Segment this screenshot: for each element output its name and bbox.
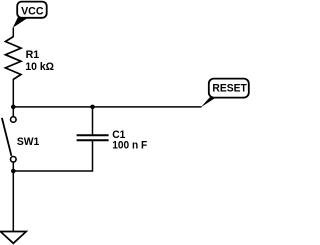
RESET net label <box>209 79 249 98</box>
svg-text:10 kΩ: 10 kΩ <box>25 61 54 73</box>
switch SW1 top contact <box>11 117 17 123</box>
switch SW1 blade <box>2 118 12 156</box>
wire resistor to node A <box>12 79 14 107</box>
svg-text:R1: R1 <box>26 49 40 61</box>
svg-text:100 n F: 100 n F <box>112 140 147 152</box>
wire node A to RESET <box>13 106 201 108</box>
RESET pointer <box>201 97 217 107</box>
wire node C to capacitor bottom <box>13 140 92 171</box>
VCC pointer <box>13 17 29 28</box>
switch SW1 bottom contact <box>11 157 17 163</box>
node B junction dot (capacitor tap) <box>90 105 95 110</box>
svg-text:VCC: VCC <box>21 6 43 18</box>
wire switch to node C <box>12 162 14 171</box>
node A junction dot <box>11 105 16 110</box>
capacitor C1 top plate <box>77 134 109 136</box>
capacitor C1 bottom plate <box>77 139 109 141</box>
wire node C to ground <box>12 171 14 232</box>
wire VCC to resistor <box>12 28 14 38</box>
svg-text:RESET: RESET <box>212 83 247 95</box>
wire node A to switch <box>12 107 14 117</box>
VCC net label <box>17 2 47 18</box>
ground symbol <box>0 232 26 244</box>
resistor R1 <box>5 37 21 80</box>
wire node B to capacitor top <box>92 107 94 135</box>
svg-text:SW1: SW1 <box>17 136 39 148</box>
node C junction dot <box>11 169 16 174</box>
